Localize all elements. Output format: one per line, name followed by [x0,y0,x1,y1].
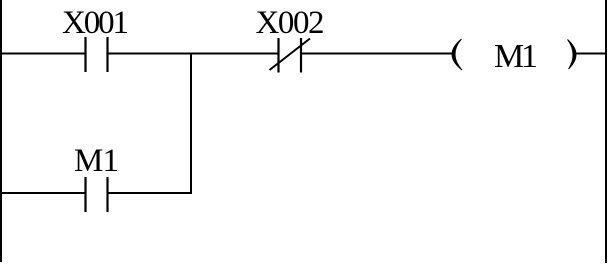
contact M1 (normally open) [86,177,108,212]
right power rail [605,0,607,263]
svg-text:X001: X001 [62,5,129,41]
wire: M1 contact to branch vertical [108,192,193,194]
coil M1 left parenthesis [452,39,462,70]
wire: X002 to coil [301,53,454,55]
wire: X001 to X002 (through branch node) [108,53,279,55]
coil M1 right parenthesis [568,40,577,70]
wire: rung 1, left rail to X001 [0,53,86,55]
wire: branch vertical [190,54,192,194]
svg-text:M1: M1 [494,38,538,75]
svg-text:X002: X002 [256,5,325,41]
contact X002 (normally closed) [270,38,311,73]
svg-text:M1: M1 [74,143,119,179]
left power rail [0,0,2,262]
wire: rung 2, left rail to M1 contact [0,192,86,194]
contact X001 (normally open) [86,37,108,72]
wire: coil to right rail [575,53,607,55]
